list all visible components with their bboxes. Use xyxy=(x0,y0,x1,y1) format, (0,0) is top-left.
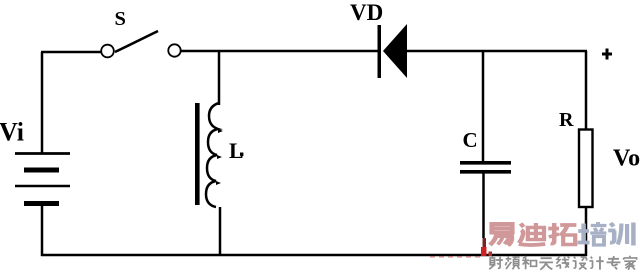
inductor L core bar xyxy=(195,103,200,205)
diode VD triangle xyxy=(383,24,407,78)
svg-text:VD: VD xyxy=(350,0,383,25)
diode VD cathode bar xyxy=(378,25,382,78)
label L xyxy=(229,138,244,163)
watermark text row 1: 培训 (blue-gray) xyxy=(578,222,634,246)
wire left vertical (battery top lead) xyxy=(41,52,44,154)
battery Vi plate 1 (long) xyxy=(15,152,70,155)
label Vi xyxy=(0,118,24,147)
battery Vi plate 4 (short thick) xyxy=(24,201,59,206)
svg-text:C: C xyxy=(463,128,478,152)
svg-text:Vi: Vi xyxy=(0,118,24,147)
label C xyxy=(463,128,478,152)
switch S right contact xyxy=(168,44,180,56)
wire top rail (switch to diode) xyxy=(181,50,379,53)
battery Vi plate 2 (short thick) xyxy=(24,168,59,173)
wire inductor branch vertical xyxy=(218,52,221,105)
svg-text:R: R xyxy=(559,109,574,131)
watermark text row 1: 易迪拓 (pink) xyxy=(490,223,576,246)
label R xyxy=(559,109,574,131)
wire bottom rail xyxy=(41,254,587,257)
label VD xyxy=(350,0,383,25)
capacitor C bottom plate xyxy=(460,170,511,174)
watermark red logo mark xyxy=(481,238,492,256)
wire capacitor to bottom rail xyxy=(482,173,485,238)
capacitor C top plate xyxy=(460,161,511,165)
inductor L coil xyxy=(206,103,223,207)
battery Vi plate 3 (long) xyxy=(15,185,70,188)
wire left vertical (battery bottom lead) xyxy=(41,203,44,256)
wire capacitor branch vertical xyxy=(482,52,485,161)
label Vo xyxy=(613,146,640,172)
wire top rail (diode to right corner) xyxy=(405,50,587,53)
watermark text row 2: 射频和天线设计专家 (gray) xyxy=(489,256,636,270)
svg-text:S: S xyxy=(115,8,126,30)
svg-text:Vo: Vo xyxy=(613,146,640,172)
plus sign output xyxy=(602,49,612,60)
red artifact dashes on bottom rail xyxy=(430,256,482,258)
svg-text:L: L xyxy=(229,138,244,163)
wire inductor to bottom rail xyxy=(219,207,222,256)
switch S left contact xyxy=(101,45,114,58)
label S xyxy=(115,8,126,30)
wire top rail left (battery to switch) xyxy=(41,51,101,54)
resistor R body xyxy=(579,130,593,208)
wire right vertical (corner to resistor) xyxy=(585,51,588,130)
wire resistor to bottom rail xyxy=(585,207,588,256)
switch S arm xyxy=(115,31,158,52)
